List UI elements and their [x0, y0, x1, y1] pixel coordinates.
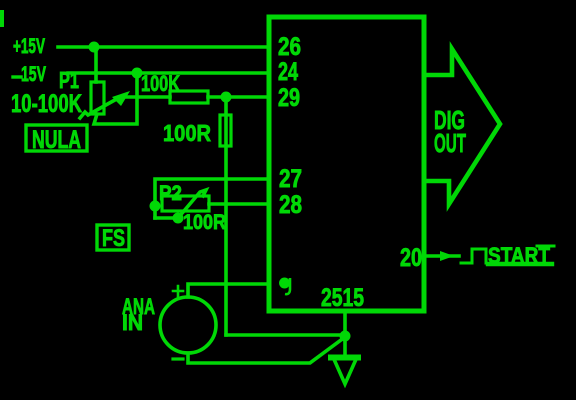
svg-text:2515: 2515 — [321, 284, 364, 312]
svg-text:IN: IN — [122, 310, 143, 335]
svg-text:100R: 100R — [163, 120, 211, 146]
svg-text:NULA: NULA — [32, 126, 81, 154]
svg-text:P2: P2 — [159, 182, 182, 205]
svg-text:OUT: OUT — [434, 128, 466, 158]
svg-text:27: 27 — [279, 165, 302, 193]
svg-text:100R: 100R — [183, 211, 226, 234]
svg-text:100K: 100K — [141, 71, 180, 96]
svg-text:20: 20 — [400, 244, 422, 272]
svg-text:26: 26 — [278, 33, 301, 61]
svg-text:+15V: +15V — [13, 35, 45, 58]
svg-text:24: 24 — [278, 58, 298, 86]
svg-text:28: 28 — [279, 191, 302, 219]
svg-text:29: 29 — [278, 84, 300, 112]
svg-text:START: START — [488, 243, 550, 268]
svg-text:15V: 15V — [21, 63, 46, 86]
svg-text:10-100K: 10-100K — [11, 90, 82, 118]
svg-text:FS: FS — [102, 225, 125, 252]
